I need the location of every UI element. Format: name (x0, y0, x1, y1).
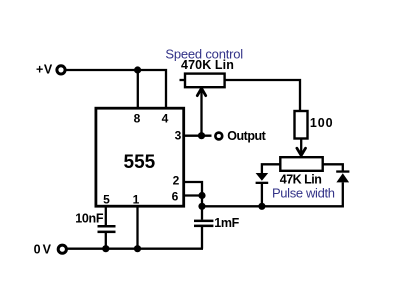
potentiometer VR1 470K body (185, 74, 225, 88)
svg-text:2: 2 (173, 174, 180, 188)
svg-text:100: 100 (310, 116, 334, 130)
svg-text:6: 6 (172, 190, 179, 204)
node junction pin3/wiper (198, 132, 205, 139)
wire pin3 stub (184, 135, 212, 137)
op IC 555 box (96, 108, 184, 206)
node junction 10nF/rail (102, 245, 109, 252)
node junction pin6/vertical (198, 192, 205, 199)
svg-text:470K Lin: 470K Lin (181, 58, 234, 72)
svg-text:47K Lin: 47K Lin (280, 172, 322, 186)
svg-text:4: 4 (162, 112, 169, 126)
node junction pin1/rail (134, 245, 141, 252)
svg-text:5: 5 (103, 193, 110, 207)
diode D1 (pointing down) (256, 173, 269, 184)
wire pin2 stub (184, 182, 202, 206)
wire pin8 drop (137, 70, 139, 109)
wire pot left stub (180, 79, 186, 81)
wire 47K right lead down (323, 164, 343, 171)
svg-text:Pulse width: Pulse width (272, 186, 335, 201)
wire D1 cathode to bottom rail (261, 184, 263, 207)
svg-text:3: 3 (175, 129, 182, 143)
svg-text:8: 8 (134, 112, 141, 126)
svg-text:1: 1 (133, 193, 140, 207)
diode D2 (pointing up) (336, 170, 349, 182)
svg-text:10nF: 10nF (75, 211, 104, 225)
capacitor C2 1mF (194, 206, 213, 248)
wire 47K left lead down (262, 164, 281, 173)
svg-text:+V: +V (36, 63, 53, 77)
node junction on +V rail (134, 66, 141, 73)
wire pot right lead to resistor (224, 80, 300, 111)
wire +V rail to pin4 (67, 70, 167, 108)
wiper arrow of 470K pot (197, 88, 205, 135)
resistor R1 100 (295, 111, 308, 139)
svg-text:Output: Output (227, 129, 266, 143)
terminal 0V (58, 245, 66, 253)
potentiometer VR2 47K body (280, 157, 322, 171)
wire pin1 drop (136, 205, 138, 249)
wire 0V rail (68, 248, 204, 250)
wire D2 anode to bottom wire corner (202, 182, 343, 206)
node junction D1/bottom wire (258, 203, 265, 210)
wire pin6 stub (184, 194, 202, 196)
node junction timing node (198, 203, 205, 210)
terminal Output (215, 133, 222, 140)
arrow from resistor into 47K pot wiper (297, 139, 306, 156)
terminal +V (57, 66, 65, 74)
capacitor C1 10nF (98, 205, 116, 249)
svg-text:555: 555 (124, 152, 156, 173)
svg-text:1mF: 1mF (214, 216, 239, 230)
svg-text:0 V: 0 V (34, 242, 52, 256)
